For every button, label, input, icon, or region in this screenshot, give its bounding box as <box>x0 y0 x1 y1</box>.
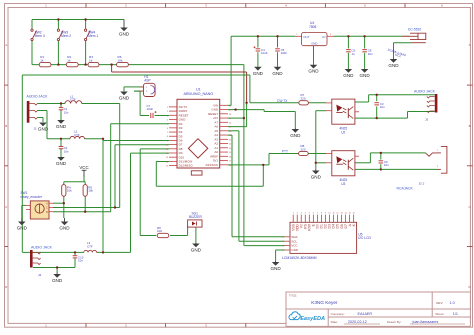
svg-text:GND: GND <box>52 278 63 283</box>
svg-text:GND: GND <box>270 266 281 271</box>
svg-text:U2: U2 <box>341 130 345 134</box>
svg-text:U3: U3 <box>341 182 345 186</box>
svg-text:10uF: 10uF <box>261 51 268 55</box>
svg-text:220: 220 <box>301 147 306 151</box>
svg-text:Date:: Date: <box>331 320 339 324</box>
svg-text:OUT: OUT <box>303 35 310 39</box>
svg-text:Mem 2: Mem 2 <box>61 34 71 38</box>
svg-text:1k: 1k <box>40 59 44 63</box>
svg-text:GND: GND <box>56 124 67 129</box>
svg-text:SCL: SCL <box>291 239 297 243</box>
svg-text:10n: 10n <box>78 259 83 263</box>
svg-text:10n: 10n <box>384 163 389 167</box>
svg-text:GND: GND <box>253 71 264 76</box>
svg-text:J1: J1 <box>34 127 38 131</box>
svg-text:GND: GND <box>56 161 67 166</box>
svg-text:GND: GND <box>388 63 399 68</box>
svg-text:VCC: VCC <box>291 244 298 248</box>
svg-text:10k: 10k <box>88 189 93 193</box>
svg-text:PTT: PTT <box>282 150 288 154</box>
svg-text:100n: 100n <box>281 51 288 55</box>
svg-text:GND: GND <box>119 32 130 37</box>
svg-text:SDA: SDA <box>291 235 297 239</box>
svg-text:GND: GND <box>119 96 130 101</box>
svg-text:GND: GND <box>290 133 301 138</box>
svg-text:1u: 1u <box>352 52 356 56</box>
svg-text:10k: 10k <box>118 59 123 63</box>
svg-text:10n: 10n <box>368 52 373 56</box>
svg-text:2020-02-12: 2020-02-12 <box>348 320 367 324</box>
svg-text:IN: IN <box>322 35 325 39</box>
svg-text:1.0: 1.0 <box>450 301 455 305</box>
svg-text:10n: 10n <box>64 110 69 114</box>
svg-text:B: B <box>5 124 7 128</box>
svg-text:C: C <box>46 207 48 210</box>
svg-text:AUDIO JACK: AUDIO JACK <box>31 246 53 250</box>
svg-text:Company:: Company: <box>331 312 345 316</box>
svg-text:1k: 1k <box>67 59 71 63</box>
svg-text:7808: 7808 <box>309 25 317 29</box>
svg-text:10n: 10n <box>380 105 385 109</box>
svg-text:Sheet:: Sheet: <box>435 312 444 316</box>
svg-text:GND: GND <box>359 73 370 78</box>
svg-text:CTF: CTF <box>70 98 76 102</box>
svg-text:EA1AER: EA1AER <box>358 312 373 316</box>
svg-text:GND: GND <box>17 226 28 231</box>
svg-text:Mem 1: Mem 1 <box>88 34 98 38</box>
svg-text:100: 100 <box>157 229 162 233</box>
svg-text:GND: GND <box>59 226 70 231</box>
svg-text:GND: GND <box>291 248 299 252</box>
svg-text:Mem 3: Mem 3 <box>35 34 45 38</box>
svg-text:Drawn By:: Drawn By: <box>387 320 401 324</box>
svg-text:ARDUINO_NANO: ARDUINO_NANO <box>183 92 213 96</box>
svg-text:I2C LCD: I2C LCD <box>358 236 371 240</box>
svg-text:CTF: CTF <box>87 244 93 248</box>
svg-text:1/1: 1/1 <box>453 312 458 316</box>
svg-text:CTF: CTF <box>74 133 80 137</box>
svg-text:DC-5520: DC-5520 <box>408 28 421 32</box>
svg-text:GND: GND <box>308 69 319 74</box>
svg-text:J2 2: J2 2 <box>419 182 425 186</box>
svg-text:VCC: VCC <box>79 165 88 170</box>
svg-text:D12/MISO: D12/MISO <box>179 164 194 168</box>
svg-text:juan.llamazares: juan.llamazares <box>412 320 439 324</box>
svg-text:CW TX: CW TX <box>277 99 288 103</box>
svg-text:A: A <box>469 43 471 47</box>
svg-text:LCM1602K-80X36MM: LCM1602K-80X36MM <box>282 256 317 260</box>
svg-text:EasyEDA: EasyEDA <box>300 316 325 322</box>
svg-text:A: A <box>5 43 7 47</box>
svg-text:U1: U1 <box>196 88 201 92</box>
svg-text:K3NG Keyer: K3NG Keyer <box>311 300 338 305</box>
svg-text:rotary_encoder: rotary_encoder <box>21 195 43 199</box>
svg-text:GND: GND <box>311 175 322 180</box>
svg-text:AUDIO JACK: AUDIO JACK <box>414 90 436 94</box>
svg-text:D13/SCK: D13/SCK <box>206 163 219 167</box>
svg-text:GND: GND <box>272 71 283 76</box>
svg-text:1k: 1k <box>89 59 93 63</box>
svg-text:10uF: 10uF <box>147 107 154 111</box>
svg-text:ASP: ASP <box>144 79 150 83</box>
svg-text:GND: GND <box>311 42 317 46</box>
svg-text:GND: GND <box>38 127 49 132</box>
svg-text:10n: 10n <box>64 149 69 153</box>
svg-text:BUZZER: BUZZER <box>189 215 202 219</box>
svg-text:J4: J4 <box>38 273 42 277</box>
svg-text:GND: GND <box>191 248 202 253</box>
svg-text:REV:: REV: <box>436 301 443 305</box>
svg-text:RCAJACK: RCAJACK <box>397 187 414 191</box>
svg-text:220: 220 <box>301 96 306 100</box>
svg-text:B: B <box>469 124 471 128</box>
svg-text:GND: GND <box>343 73 354 78</box>
svg-text:TITLE:: TITLE: <box>289 294 297 298</box>
svg-text:10k: 10k <box>67 189 72 193</box>
svg-text:J3: J3 <box>425 118 429 122</box>
svg-text:AUDIO JACK: AUDIO JACK <box>27 95 49 99</box>
